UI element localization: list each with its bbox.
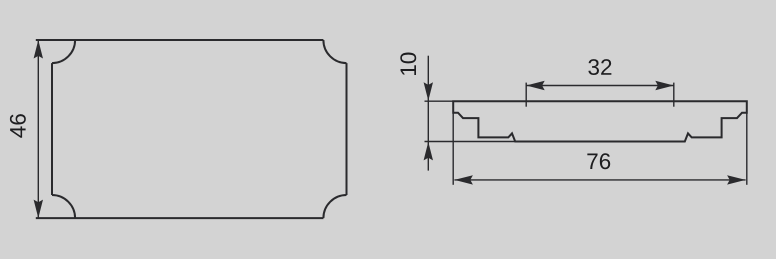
dimension 76: right arrowhead (pointing right) xyxy=(727,175,746,184)
dimension 46: dimension line xyxy=(37,40,39,218)
front view: bottom-left concave corner arc xyxy=(52,195,75,218)
front view: top-left concave corner arc xyxy=(52,40,75,63)
dimension 32: left extension line xyxy=(525,83,527,107)
dimension 10: lower arrowhead (pointing up) xyxy=(424,142,433,161)
dimension 10: upper arrowhead (pointing down) xyxy=(424,82,433,101)
dimension 76: label xyxy=(587,153,610,169)
dimension 46: label xyxy=(10,114,26,138)
dimension 32: right extension line xyxy=(673,83,675,107)
dimension 10: lower extension line (bottom plane extended left) xyxy=(425,141,516,143)
front view: plate top edge (doubles as 46-dim upper extension line) xyxy=(36,39,324,41)
front view: top-right concave corner arc xyxy=(323,40,346,63)
dimension 10: dimension line xyxy=(427,56,429,171)
dimension 46: upper arrowhead (pointing up) xyxy=(34,40,43,59)
dimension 32: right arrowhead (pointing right) xyxy=(655,81,674,90)
side view: profile outline xyxy=(453,101,747,141)
dimension 76: dimension line xyxy=(454,179,745,181)
front view: right edge xyxy=(346,63,348,195)
dimension 76: right extension line xyxy=(746,113,748,185)
front view: left edge xyxy=(51,63,53,195)
front view: plate bottom edge (doubles as 46-dim lower extension line) xyxy=(36,217,324,219)
dimension 32: dimension line xyxy=(526,85,674,87)
dimension 10: upper extension line (top face extended left) xyxy=(425,100,454,102)
dimension 76: left arrowhead (pointing left) xyxy=(454,175,473,184)
dimension 46: lower arrowhead (pointing down) xyxy=(34,200,43,219)
dimension 32: label xyxy=(588,59,611,75)
front view: bottom-right concave corner arc xyxy=(323,195,346,218)
dimension 32: left arrowhead (pointing left) xyxy=(526,81,545,90)
dimension 76: left extension line xyxy=(452,113,454,185)
dimension 10: label xyxy=(400,53,416,75)
